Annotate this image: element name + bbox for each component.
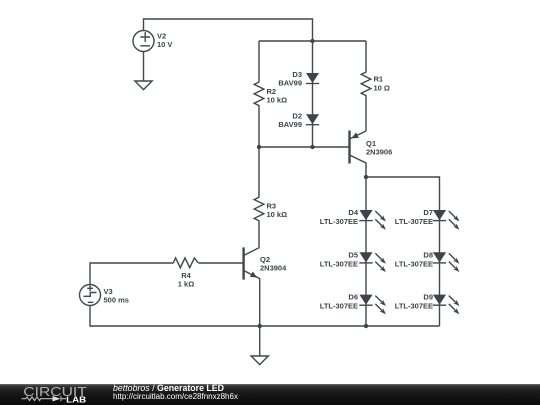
svg-text:BAV99: BAV99 [278, 120, 302, 129]
svg-text:D7: D7 [423, 208, 433, 217]
svg-text:LTL-307EE: LTL-307EE [395, 302, 433, 311]
svg-text:LAB: LAB [66, 395, 86, 404]
svg-text:10 kΩ: 10 kΩ [267, 210, 288, 219]
svg-text:LTL-307EE: LTL-307EE [320, 302, 358, 311]
svg-text:R1: R1 [374, 75, 384, 84]
svg-text:BAV99: BAV99 [278, 79, 302, 88]
svg-text:1 kΩ: 1 kΩ [178, 279, 194, 288]
svg-text:D6: D6 [348, 293, 358, 302]
svg-text:10 Ω: 10 Ω [374, 84, 390, 93]
svg-text:D8: D8 [423, 250, 433, 259]
svg-text:10 V: 10 V [157, 40, 172, 49]
svg-text:D9: D9 [423, 293, 433, 302]
svg-text:2N3904: 2N3904 [260, 264, 287, 273]
svg-text:LTL-307EE: LTL-307EE [395, 259, 433, 268]
svg-text:LTL-307EE: LTL-307EE [320, 217, 358, 226]
svg-text:10 kΩ: 10 kΩ [267, 96, 288, 105]
svg-text:LTL-307EE: LTL-307EE [320, 259, 358, 268]
svg-text:2N3906: 2N3906 [366, 148, 392, 157]
svg-text:D5: D5 [348, 250, 358, 259]
svg-text:500 ms: 500 ms [104, 296, 129, 305]
svg-text:LTL-307EE: LTL-307EE [395, 217, 433, 226]
svg-text:D4: D4 [348, 208, 358, 217]
